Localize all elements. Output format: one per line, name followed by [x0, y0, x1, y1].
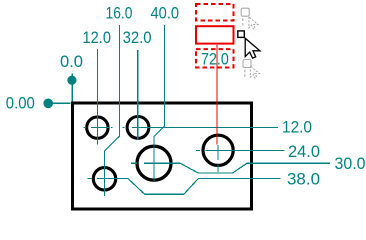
svg-text:72.0: 72.0 — [201, 50, 229, 69]
svg-text:24.0: 24.0 — [288, 142, 320, 161]
svg-text:16.0: 16.0 — [106, 3, 133, 22]
svg-text:12.0: 12.0 — [83, 28, 112, 47]
svg-text:12.0: 12.0 — [282, 118, 312, 137]
svg-text:0.00: 0.00 — [6, 93, 35, 112]
svg-text:38.0: 38.0 — [287, 169, 320, 188]
svg-text:0.0: 0.0 — [60, 52, 83, 71]
svg-text:30.0: 30.0 — [335, 154, 366, 173]
svg-text:40.0: 40.0 — [151, 3, 180, 22]
svg-text:32.0: 32.0 — [123, 28, 152, 47]
